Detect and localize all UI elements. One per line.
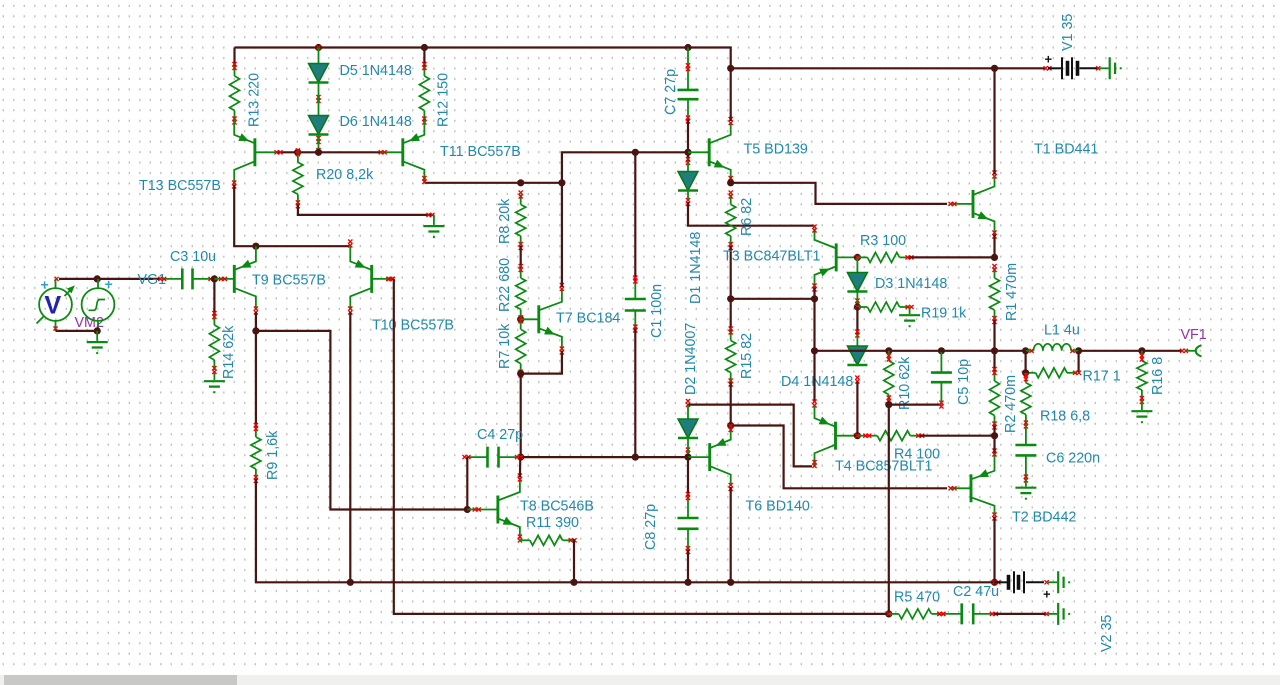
resistor R3 100 <box>857 252 913 262</box>
svg-text:R10 62k: R10 62k <box>897 356 913 410</box>
svg-text:R12 150: R12 150 <box>436 73 452 127</box>
resistor R10 62k <box>884 351 894 405</box>
resistor R7 10k <box>516 315 526 377</box>
pin mark V2 right <box>1045 580 1049 584</box>
node T6e/R15 node <box>727 422 734 429</box>
wire T7 collector run <box>561 183 563 287</box>
svg-text:VF1: VF1 <box>1181 327 1207 343</box>
svg-text:T3 BC847BLT1: T3 BC847BLT1 <box>723 249 821 265</box>
node T8 base node <box>464 506 471 513</box>
svg-text:+: + <box>1043 587 1051 602</box>
label C8 27p <box>643 504 659 550</box>
transistor T6 BD140 <box>688 429 731 487</box>
pin mark T2 collector <box>992 513 996 521</box>
svg-text:R5 470: R5 470 <box>894 590 940 606</box>
label R8 20k <box>497 198 513 244</box>
label R18 6,8 <box>1040 409 1090 425</box>
pin mark VM2 out <box>54 277 58 281</box>
svg-text:T13 BC557B: T13 BC557B <box>139 178 221 194</box>
pin mark T5 emitter <box>729 176 733 184</box>
label VF1 <box>1181 327 1207 343</box>
diode D3 1N4148 <box>847 273 867 307</box>
capacitor C7 27p <box>678 63 699 123</box>
svg-text:R8 20k: R8 20k <box>497 198 513 244</box>
pin mark D4 anode <box>855 330 859 338</box>
diode D4 1N4148 <box>847 346 867 384</box>
wire C8 top wire <box>687 457 689 496</box>
node rail / C5 <box>938 347 945 354</box>
wire R10-C5 link <box>889 404 942 406</box>
svg-text:R20 8,2k: R20 8,2k <box>316 167 374 183</box>
capacitor C2 47u <box>937 603 998 624</box>
pin mark V1 left <box>1044 66 1052 70</box>
label C7 27p <box>663 69 679 115</box>
pin mark T13 collector <box>232 181 236 189</box>
wire R3 to T1e <box>910 256 995 258</box>
pin mark T1 collector <box>992 171 996 179</box>
pin mark T8 collector <box>518 474 522 482</box>
transistor T10 BC557B <box>350 246 394 309</box>
label C4 27p <box>477 427 523 443</box>
wire output rail right <box>1079 350 1182 352</box>
wire T1 collector run <box>993 68 995 174</box>
wire R14 top stub <box>213 279 215 315</box>
capacitor C8 27p <box>678 492 699 554</box>
wire D4 cathode wire <box>856 382 858 436</box>
svg-text:R13 220: R13 220 <box>247 73 263 127</box>
wire R11 to bottom rail <box>573 540 574 582</box>
resistor R5 470 <box>889 609 946 619</box>
source VG1 <box>82 276 115 331</box>
node R9 top node <box>252 327 259 334</box>
svg-text:D3 1N4148: D3 1N4148 <box>875 276 947 292</box>
label R3 100 <box>860 233 906 249</box>
wire R2 bottom stub <box>993 426 995 436</box>
wire D2 to T4 collector <box>688 405 812 467</box>
label R1 470m <box>1004 263 1020 321</box>
wire input bottom wire <box>56 330 98 332</box>
wire C1-T6base wire <box>635 456 688 458</box>
transistor T7 BC184 <box>521 289 562 349</box>
node rail / T3T4e <box>811 347 818 354</box>
svg-text:R6 82: R6 82 <box>739 198 755 236</box>
node rail / R10 <box>885 347 892 354</box>
svg-text:T10 BC557B: T10 BC557B <box>372 318 454 334</box>
wire R9 wire upper <box>255 331 257 427</box>
pin mark fb node <box>887 612 891 616</box>
svg-text:T2 BD442: T2 BD442 <box>1012 510 1076 526</box>
node rail / R1R2 <box>991 347 998 354</box>
label C6 220n <box>1046 451 1100 467</box>
resistor R18 6,8 <box>1021 373 1031 429</box>
pin mark T11 collector <box>422 176 426 184</box>
wire D5 anode stub <box>318 48 320 64</box>
label R2 470m <box>1003 375 1019 433</box>
label V1 35 <box>1060 14 1076 51</box>
label D4 1N4148 <box>781 374 853 390</box>
wire C4-R7 node wire <box>521 456 636 458</box>
wire R4 to T2e <box>920 435 995 437</box>
svg-text:T9 BC557B: T9 BC557B <box>252 273 326 289</box>
node T5 base node <box>684 149 691 156</box>
node top rail / D5 <box>315 44 322 51</box>
wire D1 cathode stub <box>687 191 689 200</box>
transistor T1 BD441 <box>949 176 995 235</box>
wire R9 wire lower <box>256 479 995 582</box>
node bot rail / T6C <box>727 579 734 586</box>
pin mark T5 collector <box>729 117 733 125</box>
node R6/T3e node <box>727 295 734 302</box>
resistor R19 1k <box>857 302 913 312</box>
wire D1 anode stub <box>687 161 689 172</box>
pin mark VF1 <box>1180 349 1188 353</box>
pin mark R20 gnd <box>427 213 435 217</box>
pin mark T7 emitter <box>560 347 564 355</box>
svg-text:R15 82: R15 82 <box>739 333 755 379</box>
svg-text:R7 10k: R7 10k <box>497 323 513 369</box>
node rail / R16 <box>1138 347 1145 354</box>
pin mark T4 collector <box>812 460 816 468</box>
voltmeter VM2 <box>37 277 75 331</box>
wire C1 top run <box>634 152 636 279</box>
wire T11 collector rail <box>424 182 562 184</box>
capacitor C5 10p <box>931 352 952 409</box>
label R13 220 <box>247 73 263 127</box>
svg-text:R14 62k: R14 62k <box>221 325 237 379</box>
ground R16 ground <box>1131 400 1152 423</box>
pin mark C2 gnd <box>1045 612 1049 616</box>
transistor T9 BC557B <box>214 246 256 309</box>
wire top rail <box>235 48 1047 69</box>
label R16 8 <box>1150 357 1166 395</box>
wire T7 emitter run <box>521 351 562 374</box>
pin mark T9 collector <box>254 307 258 315</box>
node T4 base node <box>854 432 861 439</box>
resistor R20 8,2k <box>293 148 303 208</box>
wire C1 bottom run <box>634 329 636 458</box>
label R15 82 <box>739 333 755 379</box>
node C1 bottom node <box>632 454 639 461</box>
label R4 100 <box>894 447 940 463</box>
label D5 1N4148 <box>340 63 412 79</box>
svg-text:T6 BD140: T6 BD140 <box>746 499 810 515</box>
svg-text:T8 BC546B: T8 BC546B <box>520 499 594 515</box>
ground V1 ground <box>1100 57 1122 79</box>
svg-text:T5 BD139: T5 BD139 <box>744 142 808 158</box>
pin mark V1 right <box>1096 66 1100 70</box>
label T3 BC847BLT1 <box>723 249 821 265</box>
wire D5-D6 link <box>318 83 320 116</box>
label R10 62k <box>897 356 913 410</box>
svg-text:V: V <box>45 292 62 320</box>
label R6 82 <box>739 198 755 236</box>
node C4 right node <box>517 454 524 461</box>
svg-text:C4 27p: C4 27p <box>477 427 523 443</box>
label D2 1N4007 <box>683 323 699 395</box>
resistor R11 390 <box>520 535 577 545</box>
scrollbar thumb <box>4 675 237 685</box>
pin mark T6 collector <box>729 483 733 491</box>
wire R17 left stub <box>1024 351 1026 373</box>
wire D6 cathode stub <box>316 135 320 153</box>
svg-text:D1 1N4148: D1 1N4148 <box>688 232 704 304</box>
wire output rail left <box>815 350 1026 352</box>
svg-text:D5 1N4148: D5 1N4148 <box>340 63 412 79</box>
ground input ground <box>87 331 108 354</box>
label T10 BC557B <box>372 318 454 334</box>
output pin VF1 <box>1187 345 1202 356</box>
label R17 1 <box>1083 369 1121 385</box>
node top rail / C7 <box>684 44 691 51</box>
node input node <box>94 275 101 282</box>
svg-text:+: + <box>1045 52 1053 67</box>
svg-text:C7 27p: C7 27p <box>663 69 679 115</box>
transistor T4 BC857BLT1 <box>815 406 858 465</box>
node bot rail / C8 <box>684 579 691 586</box>
pin mark D3 cathode <box>855 305 859 309</box>
wire R7 node to C4 col <box>520 374 522 458</box>
node emitter rail / T9 <box>252 243 259 250</box>
capacitor C6 220n <box>1015 425 1036 483</box>
wire R15 top <box>730 299 732 331</box>
label V2 35 <box>1099 615 1115 652</box>
resistor R14 62k <box>209 311 219 374</box>
wire D2 stub <box>687 405 689 419</box>
wire T9 collector stub <box>255 312 257 331</box>
resistor R8 20k <box>516 191 526 251</box>
node R7 bottom node <box>517 370 524 377</box>
label C1 100n <box>649 284 665 338</box>
resistor R9 1,6k <box>251 423 261 483</box>
svg-text:C2 47u: C2 47u <box>953 584 999 600</box>
diode D2 1N4007 <box>678 419 698 456</box>
resistor R1 470m <box>990 264 1000 324</box>
capacitor C1 100n <box>625 276 646 333</box>
pin mark T1 emitter <box>992 231 996 239</box>
resistor R12 150 <box>419 62 429 125</box>
svg-text:R16 8: R16 8 <box>1150 357 1166 395</box>
svg-text:R2 470m: R2 470m <box>1003 375 1019 433</box>
pin mark T3 base node <box>855 255 859 259</box>
svg-text:C6 220n: C6 220n <box>1046 451 1100 467</box>
wire R4 left lead <box>857 435 867 437</box>
resistor R13 220 <box>230 62 240 125</box>
svg-text:R9 1,6k: R9 1,6k <box>265 430 281 480</box>
svg-text:+: + <box>105 276 113 292</box>
wire T6e to T2 base <box>731 426 947 489</box>
node neg rail / V2 <box>991 579 998 586</box>
node base rail / D6 <box>315 149 322 156</box>
inductor L1 <box>1026 344 1079 353</box>
node T1e/R1 node <box>991 254 998 261</box>
wire T5 collector run <box>730 68 732 121</box>
node T3e node <box>811 295 818 302</box>
svg-text:R22 680: R22 680 <box>497 258 513 312</box>
diode D1 1N4148 <box>678 172 698 207</box>
svg-text:C5 10p: C5 10p <box>956 359 972 405</box>
wire R2 top stub <box>993 351 995 371</box>
node C3/T9/R14 node <box>211 275 218 282</box>
pin mark D1 anode <box>686 157 690 165</box>
wire R15 bottom <box>730 383 732 426</box>
label R5 470 <box>894 590 940 606</box>
label C3 10u <box>170 249 216 265</box>
label R11 390 <box>526 515 579 531</box>
pin mark T6 emitter <box>729 424 733 432</box>
label T4 BC857BLT1 <box>835 459 933 475</box>
resistor R15 82 <box>726 327 736 387</box>
label L1 4u <box>1044 323 1080 339</box>
node T5e/R6 node <box>727 179 734 186</box>
label R20 8,2k <box>316 167 374 183</box>
svg-text:T11 BC557B: T11 BC557B <box>440 144 521 160</box>
label VM2 <box>75 315 104 331</box>
node T2e/R2 node <box>991 432 998 439</box>
pin mark T10 base <box>387 277 395 281</box>
svg-text:V2 35: V2 35 <box>1099 615 1115 652</box>
node rail / C1 <box>632 149 639 156</box>
wire C2 to ground <box>994 613 1046 615</box>
wire driver to T1 base <box>731 183 947 204</box>
label R14 62k <box>221 325 237 379</box>
wire T8 collector stub <box>519 457 522 477</box>
wire T13 collector run <box>234 185 350 247</box>
wire T3 emitter stub <box>813 288 815 299</box>
wire C7 top lead <box>687 48 689 68</box>
node rail / L1 left <box>1022 347 1029 354</box>
transistor T3 BC847BLT1 <box>815 229 858 288</box>
diode D5 1N4148 <box>309 64 329 104</box>
wire D4 anode wire <box>856 307 858 334</box>
svg-text:C8 27p: C8 27p <box>643 504 659 550</box>
wire C4 left down <box>466 457 468 509</box>
node V1 node <box>991 65 998 72</box>
svg-text:R17 1: R17 1 <box>1083 369 1121 385</box>
label T7 BC184 <box>556 311 620 327</box>
node V+ node <box>727 65 734 72</box>
label T5 BD139 <box>744 142 808 158</box>
label R22 680 <box>497 258 513 312</box>
pin mark T2 emitter <box>992 449 996 457</box>
wire D2 cathode stub <box>687 438 689 455</box>
node R22/T7 base node <box>517 316 524 323</box>
svg-text:C3 10u: C3 10u <box>170 249 216 265</box>
svg-text:D4 1N4148: D4 1N4148 <box>781 374 853 390</box>
svg-text:L1 4u: L1 4u <box>1044 323 1080 339</box>
ground V2 ground <box>1048 571 1070 593</box>
wire C7-D1 wire <box>687 120 689 162</box>
wire input top wire <box>59 278 160 280</box>
node rail / L1 right <box>1075 347 1082 354</box>
pin mark T4 emitter <box>812 400 816 408</box>
node R17/R18 node <box>1022 369 1029 376</box>
ground C2 ground <box>1048 603 1070 625</box>
ground C6 ground <box>1015 479 1036 500</box>
label D3 1N4148 <box>875 276 947 292</box>
label R12 150 <box>436 73 452 127</box>
pin mark T10 collector <box>348 307 352 315</box>
resistor R22 680 <box>516 264 526 323</box>
resistor R4 100 <box>863 431 924 441</box>
pin mark VM2 low <box>53 326 57 330</box>
pin mark T8 emitter <box>518 535 522 543</box>
pin mark V2 left <box>993 580 1001 584</box>
node T3 base node <box>854 254 861 261</box>
wire T6 collector run <box>730 487 732 582</box>
pin mark T3 emitter <box>812 284 816 292</box>
wire D4 stub <box>856 334 858 347</box>
resistor R17 1 <box>1026 368 1081 378</box>
transistor T2 BD442 <box>949 453 995 516</box>
battery V2 35 <box>995 571 1052 601</box>
node bot rail / T10C <box>347 579 354 586</box>
resistor R6 82 <box>726 191 736 251</box>
wire R13 top stub <box>233 48 235 67</box>
wire T3 emitter link <box>731 298 815 300</box>
battery V1 35 <box>1045 52 1098 80</box>
scrollbar track <box>0 675 1280 685</box>
label T1 BD441 <box>1034 142 1098 158</box>
transistor T8 BC546B <box>467 478 520 539</box>
svg-text:D2 1N4007: D2 1N4007 <box>683 323 699 395</box>
diode D6 1N4148 <box>309 116 329 145</box>
label C5 10p <box>956 359 972 405</box>
label R9 1,6k <box>265 430 281 480</box>
label T11 BC557B <box>440 144 521 160</box>
pin mark T4 base node <box>855 434 859 438</box>
node rail / T7 col <box>558 179 565 186</box>
label T13 BC557B <box>139 178 221 194</box>
node D3/R19 node <box>854 303 861 310</box>
wire D1 to T3 collector <box>688 202 815 226</box>
pin mark T3 collector <box>812 225 816 233</box>
svg-text:V1 35: V1 35 <box>1060 14 1076 51</box>
svg-text:D6 1N4148: D6 1N4148 <box>340 114 412 130</box>
svg-text:C1 100n: C1 100n <box>649 284 665 338</box>
wire D3 cathode stub <box>856 292 858 308</box>
pin mark D5 anode <box>316 45 320 49</box>
wire R20 to ground <box>298 204 434 215</box>
wire T1 emitter run <box>993 235 995 258</box>
capacitor C4 27p <box>463 447 524 468</box>
svg-text:R11 390: R11 390 <box>526 515 579 531</box>
wire R1 bottom run <box>993 320 995 351</box>
wire T10 collector run <box>349 312 351 582</box>
wire D3 anode stub <box>856 257 858 272</box>
transistor T5 BD139 <box>688 122 731 181</box>
wire R8-R22 link <box>520 246 522 268</box>
node R10 bottom node <box>885 401 892 408</box>
svg-text:R19 1k: R19 1k <box>921 306 967 322</box>
node T6 base node <box>684 454 691 461</box>
label T9 BC557B <box>252 273 326 289</box>
wire R6 bottom run <box>730 246 732 299</box>
ground R14 ground <box>204 373 225 393</box>
svg-text:R18 6,8: R18 6,8 <box>1040 409 1090 425</box>
label D6 1N4148 <box>340 114 412 130</box>
label R7 10k <box>497 323 513 369</box>
label D1 1N4148 <box>688 232 704 304</box>
resistor R16 8 <box>1137 351 1147 404</box>
pin mark T7 collector <box>560 283 564 291</box>
capacitor C3 10u <box>158 268 216 289</box>
ground R20 ground <box>423 215 444 238</box>
label T2 BD442 <box>1012 510 1076 526</box>
wire R10 down run <box>888 405 890 614</box>
label R19 1k <box>921 306 967 322</box>
svg-text:R4 100: R4 100 <box>894 447 940 463</box>
svg-text:R1 470m: R1 470m <box>1004 263 1020 321</box>
